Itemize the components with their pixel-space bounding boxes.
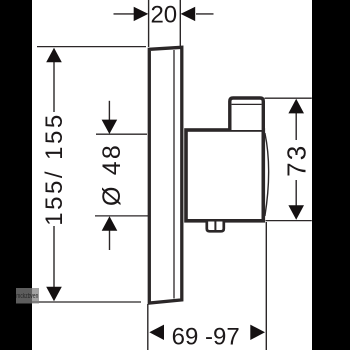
svg-text:20: 20 <box>150 2 177 29</box>
svg-text:73: 73 <box>282 144 312 177</box>
svg-text:mckzbven: mckzbven <box>16 293 38 300</box>
svg-text:Ø 48: Ø 48 <box>98 143 126 206</box>
svg-text:155/ 155: 155/ 155 <box>41 112 68 225</box>
svg-text:69 -97: 69 -97 <box>172 324 240 350</box>
